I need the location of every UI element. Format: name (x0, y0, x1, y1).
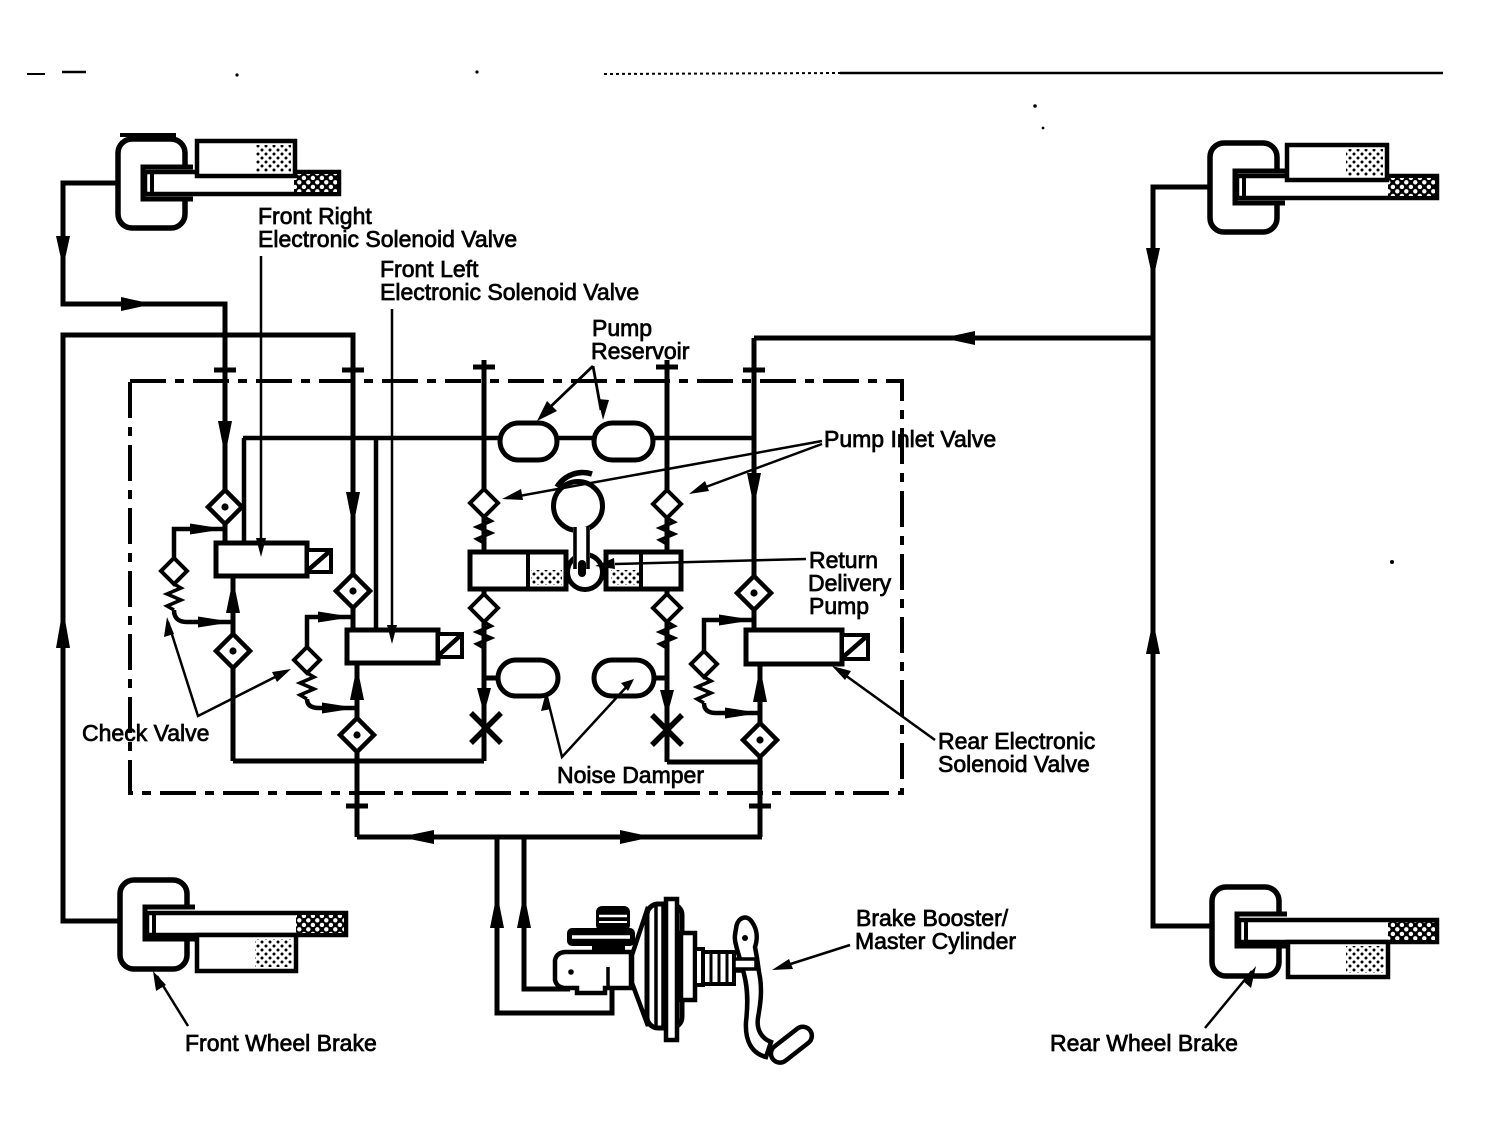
pushrod bellows (703, 952, 734, 984)
svg-text:Rear Wheel Brake: Rear Wheel Brake (1050, 1030, 1238, 1056)
label: Pump Inlet Valve (502, 426, 996, 500)
master cylinder reservoir cap (596, 906, 630, 931)
arrow up below solenoid1 (226, 579, 240, 613)
check valve FR: branch wire (174, 529, 233, 622)
outlet valve Rear (diamond with dot) (743, 723, 777, 757)
svg-text:Reservoir: Reservoir (591, 338, 690, 364)
check valve Rear: branch wire (704, 620, 760, 713)
tick front-left bottom (346, 804, 368, 809)
arrow up on right rail (1146, 620, 1160, 654)
arrow down on line E (747, 473, 761, 507)
top scan line (27, 70, 1443, 564)
check valve FL: branch wire (307, 617, 357, 708)
arrow down on front-right feed (56, 236, 70, 268)
wire: line E (rear circuit) (754, 338, 760, 837)
wire: master cylinder risers (497, 837, 612, 1013)
label: Brake Booster / Master Cylinder (772, 905, 1016, 970)
restrictor X valve left (471, 713, 501, 743)
pushrod (734, 962, 751, 971)
inlet valve Rear (diamond with dot) (737, 576, 771, 610)
front wheel brake (bottom-left) (120, 880, 346, 971)
pump outlet valve right (diamond) (653, 594, 681, 622)
wire: front-right brake to modulator (line A) (63, 183, 225, 543)
pump inlet valve right (diamond) (653, 490, 681, 518)
wire: line C (left pump branch) (233, 360, 499, 761)
master cylinder body (555, 952, 631, 993)
solenoid valve Rear body (746, 630, 868, 664)
tick rear bottom (749, 804, 771, 809)
pump inlet spring left (477, 517, 491, 543)
svg-text:Pump: Pump (809, 593, 869, 619)
wire: right rail from rear brakes (754, 187, 1212, 926)
label: Return Delivery Pump (595, 547, 892, 619)
outlet valve FR (diamond with dot) (216, 634, 250, 668)
arrow down on right rail top (1146, 248, 1160, 280)
booster shell (647, 904, 682, 1028)
label: Rear Electronic Solenoid Valve (832, 666, 1095, 777)
svg-text:Pump Inlet Valve: Pump Inlet Valve (824, 426, 996, 452)
outlet valve FL (diamond with dot) (340, 718, 374, 752)
rear wheel brake (bottom-right) (1212, 887, 1437, 977)
label: Check Valve (82, 617, 291, 746)
arrow up on left rail (56, 608, 70, 648)
solenoid valve FR body (216, 543, 331, 576)
brake booster / master cylinder assembly (555, 899, 815, 1066)
svg-text:Master Cylinder: Master Cylinder (855, 928, 1016, 954)
svg-text:Electronic Solenoid Valve: Electronic Solenoid Valve (380, 279, 639, 305)
tick line A (214, 368, 236, 373)
check valve FR: spring (167, 584, 181, 610)
wire: line D (right pump branch) (653, 360, 760, 762)
wire: front-left circuit bottom (to master cylinder manifold) (357, 662, 762, 837)
booster front cone (632, 907, 648, 1026)
arrow up below rear solenoid (753, 667, 767, 702)
tick line B (342, 368, 364, 373)
pump outlet valve left (diamond) (470, 594, 498, 622)
check valve Rear: spring (697, 677, 711, 703)
check valve FR: diamond (161, 558, 187, 584)
svg-text:Solenoid Valve: Solenoid Valve (938, 751, 1090, 777)
label: Rear Wheel Brake (1050, 966, 1256, 1056)
wire: reservoir supply line (243, 438, 754, 630)
check valve FL: diamond (294, 647, 320, 673)
return delivery pump right cylinder (606, 552, 681, 589)
arrow right on front-right feed (121, 297, 153, 311)
svg-text:Electronic Solenoid Valve: Electronic Solenoid Valve (258, 226, 517, 252)
arrow up on riser 1 (490, 893, 504, 928)
pump inlet spring right (660, 518, 674, 544)
pump piston stem (573, 527, 590, 569)
inlet valve FL (diamond with dot) (336, 574, 370, 608)
booster rear hub discs (681, 933, 695, 1000)
pump rotation arc (557, 473, 592, 487)
front right wheel brake (top-left) (118, 139, 339, 228)
arrow right on mc manifold (620, 830, 652, 844)
pump inlet valve left (diamond) (470, 489, 498, 517)
arrow down on line B (346, 492, 360, 527)
arrow down on line C above X-valve (477, 688, 491, 714)
tick line E top (743, 368, 765, 373)
pump outlet spring left (477, 622, 491, 648)
arrow left on rear return line (943, 331, 975, 345)
arrow down on line A inside box (218, 421, 232, 456)
rear right wheel brake (top-right) (1210, 143, 1437, 232)
arrow up below solenoid2 (350, 666, 364, 700)
label: Front Wheel Brake (153, 971, 377, 1056)
pump eccentric circle (568, 555, 603, 590)
tick line C (473, 365, 495, 370)
label: Front Left Electronic Solenoid Valve (380, 256, 639, 644)
check valve FL: spring (300, 673, 314, 699)
svg-text:Noise Damper: Noise Damper (557, 762, 704, 788)
pump reservoir right (594, 423, 653, 460)
inlet valve FR (diamond with dot) (208, 490, 242, 524)
booster rear plate (666, 899, 677, 1040)
pump reservoir left (500, 423, 557, 460)
label: Noise Damper (541, 679, 704, 788)
solenoid valve FL body (347, 630, 462, 663)
booster pushrod tip into pedal (734, 959, 756, 969)
wire: left rail to front wheel brake and line B (63, 335, 353, 921)
svg-text:Check Valve: Check Valve (82, 720, 209, 746)
check valve Rear: diamond (691, 651, 717, 677)
arrow up on riser 2 (517, 893, 531, 928)
noise damper left (498, 660, 558, 696)
brake pedal arm (735, 918, 771, 1057)
svg-text:Front Wheel Brake: Front Wheel Brake (185, 1030, 377, 1056)
pump motor circle (554, 482, 603, 531)
restrictor X valve right (652, 715, 682, 745)
brake pedal pad (767, 1023, 815, 1066)
pump outlet spring right (660, 622, 674, 648)
master cylinder reservoir neck (592, 944, 625, 958)
return delivery pump left cylinder (470, 552, 566, 589)
arrow left on mc manifold (400, 830, 434, 844)
noise damper right (594, 660, 654, 696)
modulator dash-dot boundary box (130, 381, 902, 793)
arrow down on line D above X-valve (660, 690, 674, 716)
label: Pump Reservoir (537, 315, 690, 421)
tick line D (656, 365, 678, 370)
master cylinder reservoir flange (567, 928, 635, 946)
label: Front Right Electronic Solenoid Valve (256, 203, 517, 557)
